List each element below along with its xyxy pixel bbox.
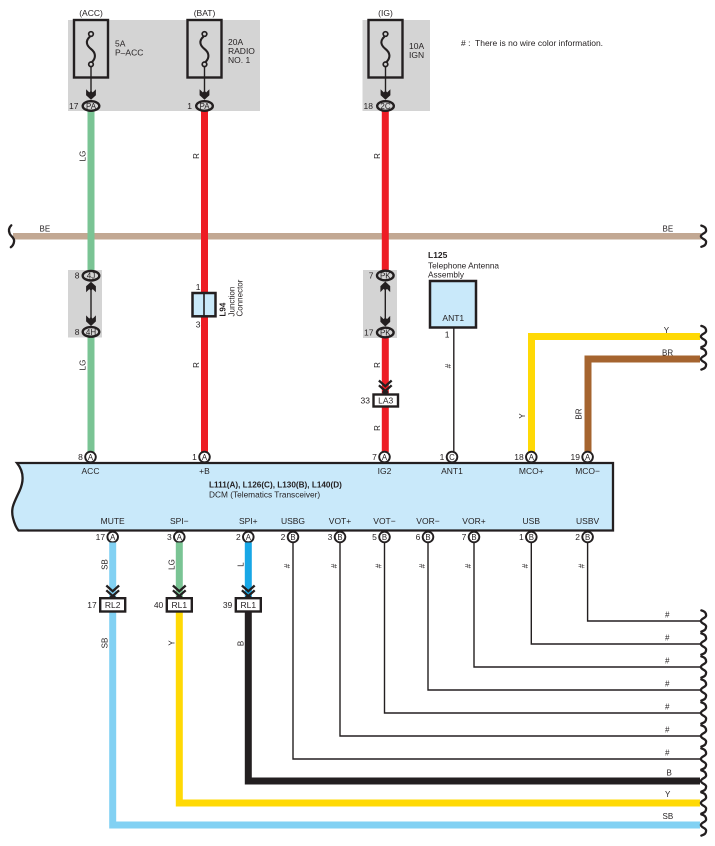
wire B (black) below RL1 [248, 611, 700, 781]
svg-text:#: # [418, 563, 427, 568]
wire # VOR+ [474, 543, 700, 668]
svg-text:A: A [246, 533, 252, 542]
svg-text:1: 1 [445, 330, 450, 340]
svg-text:LA3: LA3 [378, 396, 393, 406]
break symbol VOT- right [701, 702, 706, 723]
svg-text:BE: BE [40, 225, 51, 234]
chevron arrow SPI- [173, 586, 186, 599]
svg-text:RL1: RL1 [172, 600, 188, 610]
break symbol BE left [9, 225, 14, 247]
break symbol BE right [701, 226, 706, 247]
svg-text:A: A [110, 533, 116, 542]
svg-text:8: 8 [78, 452, 83, 462]
svg-text:8: 8 [75, 271, 80, 281]
svg-text:VOR+: VOR+ [462, 516, 485, 526]
svg-text:(IG): (IG) [378, 8, 393, 18]
fuse BAT 20A RADIO NO.1 [188, 20, 222, 100]
svg-text:A: A [88, 453, 94, 462]
node SPI&#8722; pin 3A [167, 532, 185, 543]
svg-text:18: 18 [514, 452, 524, 462]
connector 4J pin 8 [75, 271, 100, 281]
svg-text:PA: PA [199, 102, 210, 111]
arrow up 4J [86, 282, 96, 293]
svg-text:#: # [665, 703, 670, 712]
wire # VOR- [428, 543, 700, 691]
svg-text:R: R [373, 362, 382, 368]
break symbol Y right [701, 326, 706, 347]
svg-text:VOT+: VOT+ [329, 516, 351, 526]
svg-text:L94: L94 [219, 302, 228, 316]
svg-text:MUTE: MUTE [101, 516, 125, 526]
svg-text:#: # [665, 680, 670, 689]
break symbol USBG right [701, 748, 706, 769]
wire LG SPI- stub [176, 543, 183, 600]
svg-text:2: 2 [281, 532, 286, 542]
svg-text:7: 7 [462, 532, 467, 542]
wire R (red) +B vertical [201, 111, 208, 452]
arrow down PK bottom [380, 316, 390, 327]
wire LG (light green) ACC vertical [88, 111, 95, 452]
svg-text:#: # [665, 611, 670, 620]
svg-text:PK: PK [380, 328, 391, 337]
svg-text:#: # [665, 657, 670, 666]
break symbol USB right [701, 633, 706, 654]
svg-text:#: # [577, 563, 586, 568]
svg-text:RL2: RL2 [105, 600, 121, 610]
svg-text:LG: LG [167, 559, 176, 570]
svg-text:PK: PK [380, 271, 391, 280]
svg-text:B: B [236, 641, 245, 646]
node ANT1 pin 1C [440, 452, 458, 463]
wire R (red) IG2 vertical [382, 111, 389, 452]
svg-text:2: 2 [236, 532, 241, 542]
svg-text:3: 3 [167, 532, 172, 542]
svg-text:MCO+: MCO+ [519, 466, 544, 476]
svg-text:#: # [665, 749, 670, 758]
node ACC pin 8A [78, 452, 96, 463]
wire # USBG [293, 543, 700, 760]
connector PA pin 17 [69, 101, 99, 111]
node MUTE pin 17A [96, 532, 118, 543]
svg-text:B: B [529, 533, 534, 542]
svg-text:17: 17 [87, 600, 97, 610]
svg-text:BR: BR [575, 408, 584, 419]
svg-text:A: A [382, 453, 388, 462]
svg-text:IG2: IG2 [378, 466, 392, 476]
fuse ACC 5A P-ACC [74, 20, 108, 100]
node SPI+ pin 2A [236, 532, 254, 543]
wire # USBV [588, 543, 700, 622]
svg-text:A: A [585, 453, 591, 462]
svg-text:L: L [236, 562, 245, 567]
svg-text:1: 1 [440, 452, 445, 462]
svg-text:SB: SB [101, 638, 110, 649]
svg-text:18: 18 [364, 101, 374, 111]
svg-text:B: B [382, 533, 387, 542]
break symbol VOR- right [701, 679, 706, 700]
wire # VOT+ [340, 543, 700, 737]
svg-text:SPI+: SPI+ [239, 516, 258, 526]
svg-text:L125: L125 [428, 250, 448, 260]
svg-text:(ACC): (ACC) [79, 8, 103, 18]
svg-text:#: # [330, 563, 339, 568]
svg-text:A: A [202, 453, 208, 462]
svg-text:SB: SB [101, 559, 110, 570]
svg-text:B: B [425, 533, 430, 542]
svg-text:ANT1: ANT1 [441, 466, 463, 476]
svg-text:R: R [373, 425, 382, 431]
node VOR&#8722; pin 6B [416, 532, 434, 543]
svg-text:+B: +B [199, 466, 210, 476]
svg-text:B: B [667, 769, 672, 778]
junction connector L94 [193, 293, 216, 316]
svg-text:39: 39 [223, 600, 233, 610]
svg-text:B: B [585, 533, 590, 542]
node IG2 pin 7A [372, 452, 390, 463]
break symbol VOT+ right [701, 725, 706, 746]
svg-text:1: 1 [196, 282, 201, 292]
svg-text:#: # [521, 563, 530, 568]
svg-text:PA: PA [86, 102, 97, 111]
svg-text:SPI−: SPI− [170, 516, 189, 526]
svg-text:LG: LG [79, 151, 88, 162]
svg-text:19: 19 [571, 452, 581, 462]
svg-text:#: # [464, 563, 473, 568]
svg-text:VOR−: VOR− [416, 516, 439, 526]
svg-text:P–ACC: P–ACC [115, 48, 143, 58]
arrow down 4H [86, 315, 96, 326]
svg-text:DCM (Telematics Transceiver): DCM (Telematics Transceiver) [209, 490, 320, 500]
node USB pin 1B [519, 532, 537, 543]
connector PA pin 1 [187, 101, 213, 111]
svg-text:Y: Y [167, 640, 176, 646]
svg-text:Connector: Connector [236, 279, 245, 316]
wire # VOT- [385, 543, 701, 714]
svg-text:#: # [283, 563, 292, 568]
svg-text:MCO−: MCO− [575, 466, 600, 476]
connector LA3 pin 33 [361, 395, 398, 407]
svg-text:ACC: ACC [82, 466, 100, 476]
node VOT+ pin 3B [328, 532, 346, 543]
connector 2C pin 18 [364, 101, 394, 111]
connector PK pin 17 [364, 328, 394, 338]
svg-text:1: 1 [187, 101, 192, 111]
wire SB (sky blue) MUTE [113, 543, 700, 826]
svg-text:R: R [192, 153, 201, 159]
svg-text:Y: Y [665, 790, 671, 799]
svg-text:2: 2 [575, 532, 580, 542]
break symbol USBV right [701, 610, 706, 631]
fuse IG 10A IGN [369, 20, 403, 100]
svg-text:4J: 4J [87, 272, 95, 281]
connector block 4J/4H background [68, 270, 102, 338]
svg-text:A: A [529, 453, 535, 462]
svg-text:6: 6 [416, 532, 421, 542]
break symbol B right [701, 770, 706, 791]
svg-text:7: 7 [369, 271, 374, 281]
svg-text:RL1: RL1 [241, 600, 257, 610]
fuse block (ACC/BAT) background [68, 20, 260, 111]
svg-text:B: B [337, 533, 342, 542]
svg-text:# : There is no wire color in: # : There is no wire color information. [461, 38, 603, 48]
svg-text:1: 1 [192, 452, 197, 462]
fuse block (IG) background [363, 20, 431, 111]
svg-text:8: 8 [75, 327, 80, 337]
node MCO+ pin 18A [514, 452, 536, 463]
relay RL1 pin 40 [154, 598, 192, 611]
antenna assembly L125 box [430, 281, 476, 328]
svg-text:USB: USB [523, 516, 541, 526]
svg-text:R: R [373, 153, 382, 159]
svg-text:USBG: USBG [281, 516, 305, 526]
svg-text:Assembly: Assembly [428, 270, 465, 280]
svg-text:#: # [665, 634, 670, 643]
node +B pin 1A [192, 452, 210, 463]
svg-text:LG: LG [79, 360, 88, 371]
svg-text:L111(A), L126(C), L130(B), L14: L111(A), L126(C), L130(B), L140(D) [209, 481, 342, 490]
svg-text:1: 1 [519, 532, 524, 542]
svg-text:#: # [444, 363, 453, 368]
svg-text:40: 40 [154, 600, 164, 610]
svg-text:17: 17 [96, 532, 106, 542]
node VOR+ pin 7B [462, 532, 480, 543]
svg-text:17: 17 [69, 101, 79, 111]
svg-text:BE: BE [663, 225, 674, 234]
svg-text:USBV: USBV [576, 516, 599, 526]
chevron arrow IG2 [379, 381, 392, 394]
break symbol BR right [701, 348, 706, 369]
svg-text:R: R [192, 362, 201, 368]
wire Y (yellow) MCO+ [532, 337, 701, 453]
connector 4H pin 8 [75, 327, 100, 337]
svg-text:(BAT): (BAT) [194, 8, 216, 18]
svg-text:4H: 4H [86, 328, 96, 337]
svg-text:Y: Y [664, 326, 670, 335]
wire Y (yellow) below RL1 [179, 611, 700, 803]
wire BE (beige) horizontal [13, 233, 701, 240]
svg-text:A: A [177, 533, 183, 542]
relay RL1 pin 39 [223, 598, 261, 611]
svg-text:33: 33 [361, 396, 371, 406]
DCM (Telematics Transceiver) box [12, 463, 613, 531]
svg-text:3: 3 [328, 532, 333, 542]
wire # USB [531, 543, 700, 645]
svg-text:VOT−: VOT− [373, 516, 395, 526]
svg-text:Y: Y [518, 413, 527, 419]
wire ANT1 thin [453, 328, 455, 453]
svg-text:BR: BR [662, 349, 673, 358]
svg-text:B: B [290, 533, 295, 542]
svg-text:SB: SB [663, 812, 674, 821]
svg-text:C: C [449, 453, 455, 462]
svg-text:17: 17 [364, 328, 374, 338]
svg-text:IGN: IGN [409, 50, 424, 60]
relay RL2 pin 17 [87, 598, 125, 611]
break symbol Y bottom right [701, 792, 706, 813]
break symbol VOR+ right [701, 656, 706, 677]
svg-text:2C: 2C [380, 102, 390, 111]
svg-text:5: 5 [372, 532, 377, 542]
svg-text:ANT1: ANT1 [442, 313, 464, 323]
node USBV pin 2B [575, 532, 593, 543]
node USBG pin 2B [281, 532, 299, 543]
chevron arrow SPI+ [242, 586, 255, 599]
arrow up PK top [380, 282, 390, 293]
svg-text:#: # [374, 563, 383, 568]
node VOT&#8722; pin 5B [372, 532, 390, 543]
svg-text:3: 3 [196, 320, 201, 330]
svg-text:NO. 1: NO. 1 [228, 55, 250, 65]
node MCO&#8722; pin 19A [571, 452, 593, 463]
connector PK pin 7 [369, 271, 394, 281]
svg-text:7: 7 [372, 452, 377, 462]
chevron arrow MUTE [106, 586, 119, 599]
wire L (blue) SPI+ stub [245, 543, 252, 600]
svg-text:B: B [471, 533, 476, 542]
break symbol SB right [701, 814, 706, 835]
wire BR (brown) MCO- [588, 359, 700, 452]
svg-text:#: # [665, 726, 670, 735]
connector block PK background [363, 270, 397, 338]
